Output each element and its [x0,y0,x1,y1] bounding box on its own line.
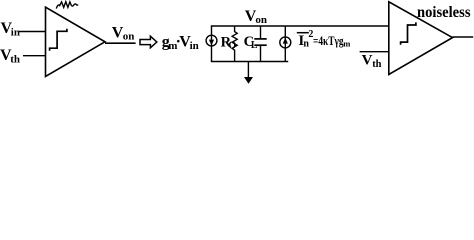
capacitor CL bottom stem [260,45,262,61]
arrowhead in G1 (down) [209,40,214,46]
wire A1 output [105,42,136,44]
wire A2 output [453,36,474,38]
svg-text:in: in [190,40,199,52]
hysteresis symbol inside A2 [401,22,416,44]
comparator A1 (noisy) triangle [46,7,106,76]
node Vin label [1,20,20,38]
resistor RO zigzag [232,26,237,62]
svg-text:m: m [343,38,350,48]
wire Vin to comparator A1 [19,31,46,33]
label In^2 = 4kTyg_m [298,29,350,50]
svg-text:noiseless: noiseless [417,4,471,21]
svg-text:th: th [10,54,20,66]
noise squiggle on comparator A1 [56,2,78,9]
svg-text:on: on [123,31,135,43]
hysteresis symbol inside A1 [50,29,67,51]
svg-text:on: on [255,14,267,26]
svg-text:=4κTγg: =4κTγg [313,34,344,48]
svg-text:th: th [372,59,381,70]
node Von label (A1 output) [112,25,135,43]
block arrow (implies) [140,36,157,48]
node Von label (above rail) [245,8,267,26]
wire through In source [284,26,286,62]
wire Vth to comparator A1 [23,55,46,57]
wire Vth to comparator A2 [360,51,390,53]
svg-text:V: V [362,53,373,69]
resistor RO label [221,35,237,52]
current source G1 (gm·Vin) circle [206,35,217,46]
node Vth label (A2) [362,53,382,70]
label gm·Vin [162,34,199,52]
capacitor CL label [244,34,258,51]
top rail / Von net wire to comparator A2 [211,25,389,27]
node Vth label [0,47,20,65]
comparator A2 (noiseless) triangle [389,2,453,75]
svg-text:in: in [11,27,20,39]
arrowhead in In source (up) [283,38,288,44]
ground (filled arrow) [244,77,253,84]
bottom rail [211,61,288,63]
capacitor CL top plate [254,38,266,40]
capacitor CL top stem [260,26,262,39]
ground stem [247,62,249,79]
overline of In^2 [297,32,309,34]
capacitor CL bottom plate [254,44,266,46]
svg-text:n: n [303,39,309,50]
wire through G1 (top rail to bottom rail) [211,26,213,62]
current source In circle [280,37,291,48]
